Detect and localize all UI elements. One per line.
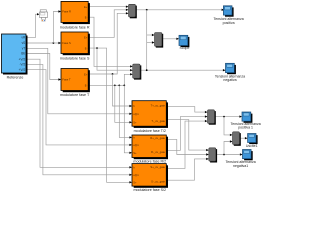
wire MuxC output to scope Uscite1 <box>240 137 248 139</box>
wire T-_cu_gate to MuxB in1 <box>166 120 209 152</box>
svg-text:vR: vR <box>21 36 26 40</box>
wire R- : fase R out2 down to Mux3 in1 <box>87 17 133 67</box>
svg-text:E-: E- <box>85 85 88 88</box>
svg-text:+V/2: +V/2 <box>19 68 26 72</box>
svg-text:Referenze: Referenze <box>7 76 24 80</box>
svg-text:Tensioni alternanza: Tensioni alternanza <box>214 17 244 21</box>
svg-text:modulatore fase T/2: modulatore fase T/2 <box>134 129 166 133</box>
scope Scope (center) <box>179 35 190 50</box>
svg-text:vT: vT <box>22 47 26 51</box>
mux Mux1 <box>129 4 137 18</box>
svg-text:negativa: negativa <box>223 78 236 82</box>
svg-text:+V/2: +V/2 <box>19 57 26 61</box>
svg-text:modulatore fase R: modulatore fase R <box>60 25 90 29</box>
wire Mux1 output to scope Tensioni alternanza positiva, branch down to Mux2 in1/in2 <box>136 9 225 71</box>
mux MuxC (outputs) <box>233 132 241 146</box>
svg-text:positiva: positiva <box>223 21 235 25</box>
subsystem modulatore fase S (orange) <box>60 32 90 60</box>
svg-text:E+: E+ <box>84 37 88 40</box>
svg-text:-V/2: -V/2 <box>19 63 25 67</box>
scope Tensioni alternanza positiva1 <box>231 112 261 129</box>
block Riferimenti (blue reference source) <box>2 34 28 80</box>
scope Tensioni alternanza negativa <box>215 63 245 82</box>
wire S- : fase S out2 down to Mux3 in2 and S/2 in3 <box>87 47 133 183</box>
wire port7 to modulatore fase R/2 in2 <box>27 70 133 146</box>
wire Mux3 output to scope Tensioni alternanza negativa <box>140 69 226 71</box>
wire T+_cu_gate to MuxA in1 <box>166 107 207 114</box>
wire vS: port2 to modulatore fase S input, branch up to fase R input <box>27 10 62 44</box>
wire vR: port1 of Riferimenti up to Scope2 <box>27 13 40 37</box>
wire S+_cu_gate to MuxA in3 <box>166 120 207 168</box>
mux MuxB (gate signals -) <box>209 148 217 163</box>
wire vT: port3 down to modulatore fase T/2 in2 <box>27 48 133 115</box>
wire port5 to modulatore fase S/2 in1 <box>27 59 133 168</box>
svg-text:E+: E+ <box>84 6 88 9</box>
svg-text:Scope: Scope <box>180 46 190 50</box>
subsystem modulatore fase S/2 (orange, bottom) <box>132 164 168 192</box>
svg-text:modulatore fase R/2: modulatore fase R/2 <box>133 160 166 164</box>
svg-text:E-: E- <box>85 47 88 50</box>
svg-text:negativa1: negativa1 <box>233 164 248 168</box>
wire port4 to fase T input <box>27 54 62 81</box>
svg-text:Uscite1: Uscite1 <box>246 144 258 148</box>
subsystem modulatore fase R (orange) <box>60 1 90 29</box>
svg-text:E+: E+ <box>84 73 88 76</box>
mux Mux2 <box>155 33 164 48</box>
svg-text:modulatore fase S: modulatore fase S <box>60 56 90 60</box>
svg-text:modulatore fase S/2: modulatore fase S/2 <box>134 188 167 192</box>
wire port6 to modulatore fase S/2 in2 <box>27 64 133 176</box>
subsystem modulatore fase T (orange) <box>60 69 90 98</box>
wire R-_cu_gate to MuxA in2 <box>166 115 207 150</box>
mux MuxA (gate signals +) <box>208 110 216 125</box>
subsystem modulatore fase R/2 (orange, bottom) <box>132 135 168 164</box>
wire MuxA output to scope positiva1, branch down to MuxC in1 <box>215 115 243 136</box>
svg-text:E-: E- <box>85 16 88 19</box>
wire MuxB output to scope negativa1, branch up to MuxC in2 <box>216 140 243 155</box>
svg-text:positiva 1: positiva 1 <box>238 125 253 129</box>
wire T+ : fase T out1 up to Mux1 in3, branch down to T/2 in1 <box>87 12 132 107</box>
wire R+ : fase R out1 to Mux1 in1 <box>87 6 128 8</box>
wire Mux2 output to Scope <box>162 38 179 40</box>
wire T- : fase T out2 up to Mux3 in3, branches down to T/2 in3, R/2 in1, R/2 in3 <box>87 73 133 154</box>
scope Tensioni alternanza negativa1 <box>226 150 256 168</box>
scope Uscite1 <box>246 134 258 148</box>
subsystem modulatore fase T/2 (orange, bottom) <box>132 101 168 134</box>
svg-text:vS: vS <box>22 41 26 45</box>
wire S+ : fase S out1 up to Mux1 in2 <box>87 9 128 38</box>
wire S-_cu_gate to MuxB in3 <box>166 158 209 181</box>
mux Mux3 <box>133 64 142 80</box>
scope Tensioni alternanza positiva <box>214 6 244 25</box>
scope Scope2 (top-left oscilloscope icon) <box>39 10 47 21</box>
svg-text:modulatore fase T: modulatore fase T <box>60 93 90 97</box>
wire R+_cu_gate to MuxB in2 <box>166 139 209 155</box>
